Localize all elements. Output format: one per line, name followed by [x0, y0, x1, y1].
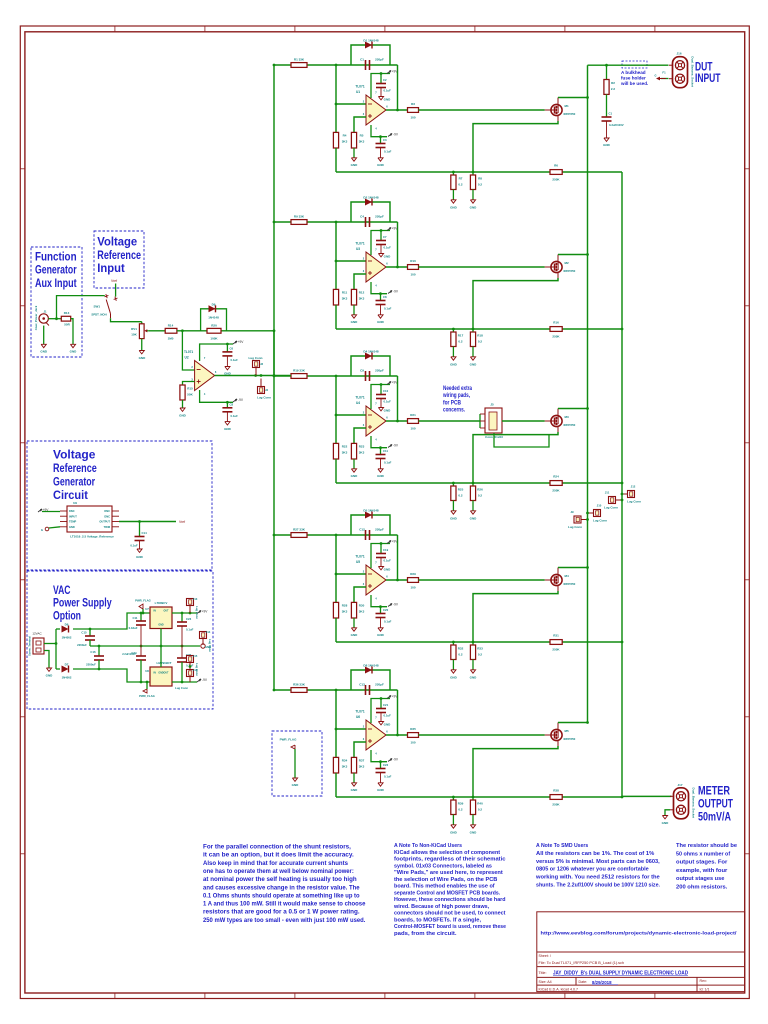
svg-text:M2: M2	[565, 261, 569, 265]
wire channel 3 output	[386, 420, 408, 423]
svg-text:D6: D6	[65, 623, 69, 627]
svg-text:U6: U6	[356, 715, 360, 719]
svg-text:For the parallel connection of: For the parallel connection of the shunt…	[203, 845, 351, 851]
ground below R7	[452, 190, 455, 200]
power flag +9V channel 1	[387, 71, 391, 74]
svg-text:Voltage: Voltage	[97, 235, 137, 249]
svg-text:1 A and thus 100 mW. Still it: 1 A and thus 100 mW. Still it would make…	[203, 902, 366, 908]
svg-text:C8: C8	[230, 403, 234, 407]
op-amp U4 channel 3	[366, 406, 386, 436]
resistor R16 channel 2 meter summing	[550, 327, 562, 332]
ground symbol mid rail	[201, 644, 205, 648]
svg-text:1N4002: 1N4002	[62, 676, 72, 680]
wire channel 4 drain to DUT bus	[557, 568, 559, 575]
connector J16 DUT input dual banana socket	[673, 57, 688, 88]
wire channel 2 drain to DUT bus	[557, 255, 559, 262]
ground below R30	[353, 618, 356, 628]
svg-text:Lug Conn: Lug Conn	[175, 686, 188, 690]
wire BNC to junction and up to switch	[48, 317, 61, 320]
resistor R11 channel 2	[335, 261, 338, 289]
svg-text:IRFP250: IRFP250	[564, 582, 576, 586]
svg-text:INPUT: INPUT	[69, 514, 77, 518]
svg-text:resistors that are good for a: resistors that are good for a 0.5 or 1 W…	[203, 910, 360, 916]
resistor R9 channel 2 input	[291, 220, 307, 225]
connector J12 lug on meter bus	[628, 491, 635, 498]
svg-text:M1: M1	[565, 104, 569, 108]
wire channel 2 inverting input	[335, 222, 338, 261]
svg-text:GND: GND	[351, 788, 359, 792]
svg-text:0.1uF: 0.1uF	[384, 400, 392, 404]
svg-text:3K3: 3K3	[359, 297, 365, 301]
svg-text:+9V: +9V	[392, 227, 399, 231]
svg-text:100: 100	[410, 741, 415, 745]
svg-text:GND: GND	[139, 356, 147, 360]
wire channel 3 diode feedback loop	[351, 356, 390, 376]
svg-text:R24: R24	[553, 475, 559, 479]
svg-text:U1: U1	[356, 90, 360, 94]
svg-text:J12: J12	[631, 485, 636, 489]
wire pot wiper to R14	[149, 329, 165, 332]
wire R4 to sense row	[335, 148, 338, 172]
wire channel 4 shunt sense row	[336, 641, 622, 644]
power flag -9V channel 4	[388, 604, 392, 607]
svg-text:R13: R13	[64, 311, 70, 315]
svg-text:0.1uF: 0.1uF	[384, 461, 392, 465]
svg-text:0.1uF: 0.1uF	[186, 628, 194, 632]
svg-text:GND: GND	[377, 633, 385, 637]
svg-text:Lug Conn: Lug Conn	[627, 500, 641, 504]
wire channel 5 inverting input	[335, 690, 338, 729]
svg-text:GND: GND	[384, 409, 392, 413]
svg-text:220pF: 220pF	[375, 369, 384, 373]
svg-text:SPDT_NOH: SPDT_NOH	[91, 313, 106, 317]
svg-text:GND: GND	[377, 163, 385, 167]
svg-text:GND: GND	[351, 474, 359, 478]
svg-text:OUTPUT: OUTPUT	[698, 799, 733, 811]
capacitor C10 channel 3 positive bypass	[380, 385, 383, 395]
ground below R23	[353, 459, 356, 469]
svg-text:R2: R2	[611, 81, 615, 85]
capacitor C9 channel 3 feedback	[364, 371, 367, 381]
svg-text:GND: GND	[384, 568, 392, 572]
svg-text:shunts. The 2.2uf/100V should: shunts. The 2.2uf/100V should be 100V 12…	[536, 883, 660, 889]
svg-text:R10: R10	[410, 259, 416, 263]
capacitor C20 channel 4 negative bypass	[379, 607, 382, 614]
svg-text:50R: 50R	[64, 322, 70, 326]
svg-text:IN: IN	[154, 672, 157, 675]
wire R28 to sense row	[335, 618, 338, 642]
ground below R32	[452, 660, 455, 670]
svg-text:Dual_Banana_Socket: Dual_Banana_Socket	[692, 788, 696, 819]
svg-text:The resistor should be: The resistor should be	[676, 843, 738, 849]
svg-text:for PCB: for PCB	[443, 400, 462, 406]
svg-text:J1: J1	[43, 310, 47, 314]
wire DUT input top wire	[588, 64, 669, 67]
svg-text:it can be an option, but it do: it can be an option, but it does limit t…	[203, 853, 354, 859]
svg-text:R21: R21	[410, 413, 416, 417]
svg-text:A bulkhead: A bulkhead	[621, 70, 646, 75]
svg-text:GND: GND	[377, 474, 385, 478]
wire channel 2 positive supply rail	[371, 231, 390, 256]
svg-text:C9: C9	[360, 369, 364, 373]
wire positive raw rail	[73, 613, 150, 629]
resistor R14 input series	[165, 328, 177, 333]
connector J13 lug +9V rail	[187, 599, 194, 606]
ground pin of U9	[45, 527, 49, 531]
svg-text:M4: M4	[565, 574, 569, 578]
svg-text:200 ohm resistors.: 200 ohm resistors.	[676, 885, 728, 891]
svg-text:0.2: 0.2	[478, 340, 483, 344]
svg-text:IRFP250: IRFP250	[564, 737, 576, 741]
dashed box Function Generator Aux Input	[31, 247, 82, 357]
svg-text:example, with four: example, with four	[676, 868, 728, 874]
capacitor C24 negative regulator input	[140, 646, 142, 656]
svg-text:U4: U4	[356, 401, 360, 405]
resistor R26 channel 3 shunt	[472, 483, 475, 486]
svg-text:R28: R28	[342, 604, 348, 608]
svg-text:0.1uF: 0.1uF	[384, 559, 392, 563]
title block outline	[537, 912, 745, 992]
svg-text:at nominal power the self heat: at nominal power the self heating is usu…	[203, 877, 357, 883]
dashed box fuse holder placeholder	[622, 61, 647, 68]
svg-text:+9V: +9V	[392, 540, 399, 544]
wire buffer positive supply rail	[200, 344, 233, 361]
svg-text:0.1uF: 0.1uF	[384, 307, 392, 311]
svg-text:-9V: -9V	[393, 444, 399, 448]
connector J4 lug below buffer output	[258, 387, 265, 394]
svg-text:J13: J13	[193, 597, 198, 601]
diode D9 clamp	[209, 305, 216, 312]
svg-text:C3: C3	[383, 138, 387, 142]
svg-text:C10: C10	[383, 389, 389, 393]
svg-text:R9 33K: R9 33K	[294, 215, 305, 219]
svg-text:GND: GND	[470, 517, 478, 521]
wire channel 3 pads to gate	[502, 420, 545, 423]
svg-text:C7: C7	[383, 235, 387, 239]
svg-text:3K3: 3K3	[342, 610, 348, 614]
svg-text:Lug Conn: Lug Conn	[249, 356, 263, 360]
svg-text:D5 1N4148: D5 1N4148	[363, 509, 379, 513]
svg-text:C22: C22	[383, 763, 389, 767]
ground below C8	[378, 315, 383, 318]
connector J18 lug -9V rail lower	[187, 670, 194, 677]
svg-text:footprints, regardless of thei: footprints, regardless of their schemati…	[394, 857, 506, 863]
svg-text:100: 100	[410, 116, 415, 120]
svg-text:IRFP250: IRFP250	[564, 269, 576, 273]
transistor M4 channel 4 power MOSFET	[551, 574, 562, 585]
svg-text:C2: C2	[383, 78, 387, 82]
svg-text:J15: J15	[193, 654, 198, 658]
svg-text:R25: R25	[458, 488, 464, 492]
wire channel 5 diode feedback loop	[351, 670, 390, 690]
transistor M5 channel 5 power MOSFET	[551, 729, 562, 740]
svg-text:3K3: 3K3	[359, 140, 365, 144]
op-amp U6 channel 5	[366, 720, 386, 750]
ground below C7	[378, 254, 383, 257]
resistor R17 channel 2 shunt	[452, 329, 455, 332]
power flag +9V channel 3	[387, 382, 391, 385]
svg-text:D2 1N4148: D2 1N4148	[363, 196, 379, 200]
wire non-inverting input to R15	[183, 382, 195, 386]
svg-text:0.1uF: 0.1uF	[384, 150, 392, 154]
wire channel 4 inverting input	[335, 535, 338, 574]
capacitor C23 regulator output	[181, 613, 184, 622]
connector J14 lug ground rail	[200, 632, 207, 639]
op-amp U5 channel 4	[366, 565, 386, 595]
svg-text:G: G	[654, 74, 656, 78]
svg-text:U9: U9	[73, 501, 77, 505]
svg-text:R12: R12	[359, 291, 365, 295]
svg-text:C20: C20	[383, 608, 389, 612]
svg-text:TRIM: TRIM	[104, 525, 110, 529]
capacitor C4 channel 2 feedback	[364, 217, 367, 227]
capacitor C12 channel 4 feedback	[364, 530, 367, 540]
svg-text:R1 33K: R1 33K	[294, 58, 305, 62]
svg-text:100: 100	[410, 427, 415, 431]
svg-text:Lug Conn: Lug Conn	[195, 606, 199, 619]
svg-text:R19 33K: R19 33K	[293, 369, 306, 373]
svg-text:TL071: TL071	[184, 350, 193, 354]
svg-text:3.3uF/100V: 3.3uF/100V	[609, 123, 624, 127]
svg-text:R30: R30	[359, 604, 365, 608]
op-amp U1 channel 1	[366, 95, 386, 125]
svg-text:R3: R3	[411, 102, 415, 106]
capacitor C11 regulator input	[140, 613, 143, 621]
resistor R15 bias	[180, 385, 185, 400]
svg-text:R40: R40	[477, 802, 483, 806]
svg-text:GND: GND	[470, 363, 478, 367]
resistor R33 channel 4 shunt	[472, 642, 475, 645]
svg-text:+9V: +9V	[392, 70, 399, 74]
svg-text:C21: C21	[383, 703, 389, 707]
svg-text:GND: GND	[351, 163, 359, 167]
potentiometer RV1	[140, 322, 143, 324]
dashed box Voltage Reference Input	[94, 231, 144, 288]
svg-text:C14: C14	[142, 531, 148, 535]
svg-text:File: To Dual TL071_IRFP250 PC: File: To Dual TL071_IRFP250 PCB B_Load (…	[539, 961, 625, 965]
svg-text:0.2: 0.2	[478, 808, 483, 812]
wire channel 5 source to shunts	[557, 741, 559, 746]
ground below R33	[472, 660, 475, 670]
svg-text:250K: 250K	[552, 178, 560, 182]
svg-text:Lug Conn: Lug Conn	[593, 519, 607, 523]
svg-text:INPUT: INPUT	[695, 73, 721, 85]
wire channel 1 gate wire	[419, 109, 545, 112]
svg-text:-9V: -9V	[393, 603, 399, 607]
svg-text:+9V: +9V	[392, 695, 399, 699]
svg-text:3K3: 3K3	[342, 297, 348, 301]
svg-text:GND: GND	[450, 206, 458, 210]
wire channel 3 shunt sense row	[336, 482, 622, 485]
wire channel 3 inverting input	[335, 376, 338, 415]
diode D4 channel 3 clamp	[365, 353, 372, 360]
svg-text:3K3: 3K3	[359, 610, 365, 614]
ground below R13	[71, 319, 73, 345]
wire channel 2 shunt sense row	[336, 328, 622, 331]
svg-text:C12: C12	[359, 528, 365, 532]
svg-text:R38: R38	[553, 789, 559, 793]
svg-text:KiCad allows the selection of: KiCad allows the selection of component	[394, 850, 500, 856]
transistor M2 channel 2 power MOSFET	[551, 261, 562, 272]
resistor R36 channel 5 input	[291, 688, 307, 693]
svg-text:Needed extra: Needed extra	[443, 386, 473, 392]
svg-text:Power Supply: Power Supply	[53, 596, 112, 610]
svg-text:J11: J11	[605, 491, 610, 495]
svg-text:Reference: Reference	[97, 248, 141, 262]
capacitor C22 channel 5 negative bypass	[379, 762, 382, 769]
ground below R18	[472, 347, 475, 357]
svg-text:http://www.eevblog.com/forum/p: http://www.eevblog.com/forum/projects/dy…	[541, 931, 738, 936]
capacitor C7 channel 2 positive bypass	[380, 231, 383, 241]
svg-text:boards, to MOSFETs. If a singl: boards, to MOSFETs. If a single,	[394, 917, 481, 923]
svg-text:220pF: 220pF	[375, 215, 384, 219]
capacitor C3 channel 1 negative bypass	[379, 137, 382, 144]
wire U7 output to +9V	[172, 612, 197, 615]
svg-text:D8 1N4148: D8 1N4148	[363, 664, 379, 668]
resistor R2 snubber at DUT input	[605, 64, 608, 67]
svg-text:D1 1N4148: D1 1N4148	[363, 39, 379, 43]
svg-text:J4: J4	[265, 388, 269, 392]
resistor R38 channel 5 meter summing	[550, 795, 562, 800]
svg-text:Vref: Vref	[111, 279, 117, 283]
svg-text:board. This method enables the: board. This method enables the use of	[394, 884, 495, 890]
wire DUT positive drain bus vertical x587	[586, 65, 589, 722]
svg-text:Id: 1/1: Id: 1/1	[700, 987, 710, 991]
svg-text:Control-MOSFET board is used,: Control-MOSFET board is used, remove the…	[394, 924, 506, 930]
wire channel 4 negative supply rail	[371, 595, 387, 607]
wire meter output bottom wire	[622, 795, 672, 798]
svg-text:C13: C13	[359, 683, 365, 687]
svg-text:VAC: VAC	[53, 583, 71, 597]
svg-text:50K: 50K	[187, 393, 193, 397]
power flag -9V channel 3	[388, 445, 392, 448]
wire negative raw rail	[73, 668, 99, 671]
wire R11 to sense row	[335, 305, 338, 329]
svg-text:However, these connections sho: However, these connections should be har…	[394, 897, 506, 903]
svg-text:GND: GND	[136, 555, 144, 559]
svg-text:Screw_Terminal: Screw_Terminal	[28, 636, 32, 656]
svg-text:0.2: 0.2	[478, 653, 483, 657]
svg-text:250K: 250K	[552, 489, 560, 493]
svg-text:220pF: 220pF	[375, 528, 384, 532]
wire channel 4 feedback to output	[396, 535, 399, 580]
svg-text:Lug Conn: Lug Conn	[604, 506, 618, 510]
wire channel 3 input row	[274, 375, 398, 378]
svg-text:D4 1N4148: D4 1N4148	[363, 350, 379, 354]
capacitor C19 channel 4 positive bypass	[380, 544, 383, 554]
svg-text:will be used.: will be used.	[620, 81, 648, 86]
resistor R23 channel 3	[351, 443, 356, 459]
svg-text:KiCad E.D.A. kicad 4.0.7: KiCad E.D.A. kicad 4.0.7	[539, 987, 579, 991]
power flag +9V supply output	[197, 611, 201, 614]
wire channel 4 source to shunts	[557, 586, 559, 591]
svg-text:one has to operate them at wel: one has to operate them at well below no…	[203, 869, 354, 875]
transistor M3 channel 3 power MOSFET	[551, 415, 562, 426]
wire channel 1 drain to DUT bus	[557, 98, 559, 105]
svg-text:"Wire Pads," are used here, to: "Wire Pads," are used here, to represent	[394, 870, 503, 876]
diode D8 channel 5 clamp	[365, 667, 372, 674]
ground below R39	[452, 815, 455, 825]
svg-text:-9V: -9V	[202, 678, 208, 682]
svg-text:GND: GND	[351, 633, 359, 637]
wire switch common to potentiometer	[111, 318, 142, 321]
resistor R8 channel 1 shunt	[472, 172, 475, 175]
svg-text:0.1uF: 0.1uF	[384, 246, 392, 250]
svg-text:Title:: Title:	[539, 971, 547, 975]
svg-text:LT1019_2.5 Voltage_Reference: LT1019_2.5 Voltage_Reference	[70, 535, 114, 539]
regulator U7 L7809	[150, 607, 172, 629]
svg-text:-9V: -9V	[393, 133, 399, 137]
svg-text:M3: M3	[565, 415, 569, 419]
svg-text:All the resistors can be 1%. T: All the resistors can be 1%. The cost of…	[536, 851, 654, 857]
ground below R15	[181, 400, 184, 408]
svg-text:250K: 250K	[552, 335, 560, 339]
svg-text:+9V: +9V	[392, 381, 399, 385]
svg-text:2.2uF/100V: 2.2uF/100V	[122, 652, 136, 656]
svg-text:250K: 250K	[552, 803, 560, 807]
connector J9 lug on drain bus	[574, 516, 581, 523]
svg-text:L7809CV: L7809CV	[155, 601, 168, 605]
power flag +9V channel 4	[387, 541, 391, 544]
wire channel 1 positive supply rail	[371, 74, 390, 99]
capacitor C25 negative regulator output	[181, 646, 183, 658]
dashed box VAC Power Supply Option	[27, 571, 213, 709]
wire channel 5 feedback to output	[396, 690, 399, 735]
svg-text:GND: GND	[384, 723, 392, 727]
wire channel 3 non-inverting input	[354, 428, 366, 443]
svg-text:GND: GND	[384, 255, 392, 259]
svg-text:R27 33K: R27 33K	[293, 528, 306, 532]
ground below snubber	[604, 138, 609, 141]
svg-text:50mV/A: 50mV/A	[698, 812, 731, 824]
svg-text:R6: R6	[554, 164, 558, 168]
resistor R13 termination	[61, 316, 70, 321]
wire buffer negative supply rail	[200, 390, 233, 402]
svg-text:RV1: RV1	[131, 327, 137, 331]
wire channel 1 negative supply rail	[371, 125, 387, 137]
svg-text:Sheet: /: Sheet: /	[539, 954, 551, 958]
svg-text:50 ohms x number of: 50 ohms x number of	[676, 851, 730, 857]
svg-text:C1: C1	[360, 58, 364, 62]
connector J2 VAC screw terminal	[33, 638, 44, 654]
wire channel 3 source to shunts	[557, 427, 559, 432]
svg-text:TL071: TL071	[355, 396, 364, 400]
resistor R28 channel 4	[335, 574, 338, 602]
wire channel 5 negative supply rail	[371, 750, 387, 762]
switch SW1 SPDT	[106, 294, 107, 298]
svg-text:R17: R17	[458, 334, 464, 338]
svg-text:R35: R35	[410, 727, 416, 731]
svg-text:concerns.: concerns.	[443, 408, 465, 414]
svg-text:R36 33K: R36 33K	[293, 683, 306, 687]
svg-text:Aux Input: Aux Input	[35, 276, 77, 290]
svg-text:0.33uF: 0.33uF	[129, 626, 138, 630]
capacitor C21 channel 5 positive bypass	[380, 699, 383, 709]
svg-text:A Note To SMD Users: A Note To SMD Users	[536, 843, 588, 849]
svg-text:R16: R16	[553, 321, 559, 325]
wire D9 feedback loop	[201, 309, 227, 331]
svg-text:R23: R23	[359, 445, 365, 449]
svg-text:220pF: 220pF	[375, 58, 384, 62]
svg-text:2200uF: 2200uF	[86, 663, 96, 667]
svg-text:IN: IN	[154, 610, 157, 613]
svg-text:SW1: SW1	[94, 305, 101, 309]
power flag -9V channel 1	[388, 134, 392, 137]
resistor R31 channel 4 meter summing	[550, 640, 562, 645]
wire J2 pin2 to ground	[44, 651, 49, 669]
resistor R3 channel 1 gate	[408, 108, 419, 113]
svg-text:GND: GND	[450, 363, 458, 367]
